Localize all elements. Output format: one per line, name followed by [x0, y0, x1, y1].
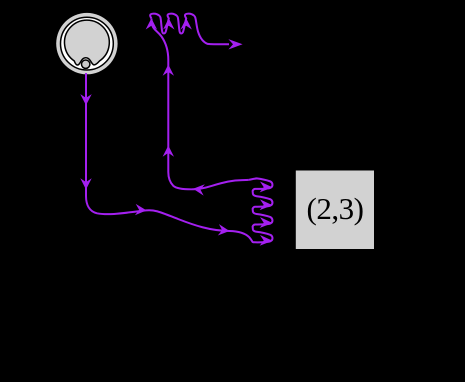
coil right arrow 2 — [260, 217, 273, 228]
coil right arrow 3 — [260, 199, 273, 210]
arrow right 1 on wire A — [135, 204, 147, 216]
wire B: coil top, left, up riser — [151, 18, 248, 189]
webcam icon indicator circle — [82, 60, 90, 68]
coil right arrow 1 — [260, 235, 273, 246]
coil right (4 loops) — [249, 178, 273, 242]
webcam icon outer circle — [56, 13, 117, 74]
webcam icon lens — [65, 20, 110, 65]
svg-text:(2,3): (2,3) — [307, 191, 364, 226]
coil top arrow 2 — [163, 18, 174, 29]
arrow left on wire B — [193, 183, 205, 196]
coil right arrow 4 — [260, 182, 273, 193]
arrow down 1 on wire A — [80, 94, 91, 105]
arrow up 2 on riser — [163, 65, 174, 76]
arrow right 2 on wire A — [218, 224, 230, 237]
final output arrow — [228, 39, 242, 49]
coil top arrow 3 — [181, 18, 192, 29]
coil top arrow 1 — [146, 18, 157, 29]
arrow down 2 on wire A — [80, 178, 91, 189]
wire A: webcam down, right, to coil bottom — [86, 73, 255, 242]
coil top (3 loops) — [150, 14, 229, 45]
box (2,3) — [296, 171, 374, 250]
webcam icon white ring — [61, 17, 114, 70]
arrow up 1 on riser — [163, 146, 174, 157]
